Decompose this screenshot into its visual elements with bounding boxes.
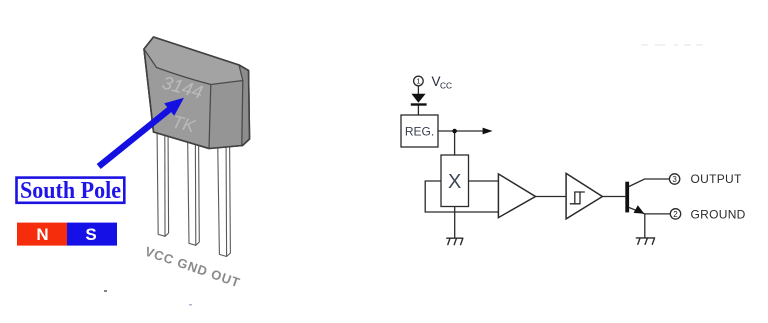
svg-text:South Pole: South Pole <box>20 178 121 204</box>
package silhouette redraw (outline on top) <box>144 37 250 149</box>
wire diode to REG <box>417 106 419 116</box>
transistor Q1 base bar <box>625 182 629 213</box>
regulator box REG <box>401 115 438 147</box>
lead GND (leg 2) <box>188 128 200 245</box>
wire hall left bracket <box>425 181 498 212</box>
hall element box <box>441 155 469 207</box>
transistor emitter wire <box>629 208 645 214</box>
svg-text:1: 1 <box>416 77 420 86</box>
wire pin1 to diode <box>417 86 419 94</box>
ground symbol 1 (hall element) <box>447 238 463 244</box>
wire amp to schmitt <box>536 196 567 198</box>
wire hall to ground <box>454 207 456 239</box>
pin 3 circle <box>669 174 679 184</box>
package facet edges <box>144 49 243 149</box>
svg-text:2: 2 <box>673 210 678 219</box>
transistor Q1 emitter arrowhead <box>634 205 645 213</box>
magnet north half <box>17 223 67 246</box>
pin 2 circle <box>670 209 680 219</box>
svg-text:3: 3 <box>672 175 677 184</box>
South Pole label box <box>17 178 125 203</box>
wire REG output <box>438 130 484 132</box>
diode D1 <box>411 94 427 106</box>
wire hall right to amp <box>469 180 499 182</box>
faint speck bottom left <box>104 290 107 292</box>
schmitt trigger U2 <box>566 173 602 219</box>
magnet south half <box>67 223 117 246</box>
faint scan artifacts top right <box>641 44 703 46</box>
package right bevel facet <box>209 81 243 149</box>
lead OUT (leg 3) <box>218 130 231 257</box>
svg-text:OUTPUT: OUTPUT <box>691 172 742 186</box>
hysteresis symbol <box>570 192 585 204</box>
pin 1 circle <box>414 76 424 86</box>
faint speck lower middle <box>189 304 192 306</box>
svg-text:S: S <box>85 225 96 244</box>
package body TO-92 silhouette <box>144 37 250 149</box>
svg-text:GROUND: GROUND <box>691 207 746 221</box>
junction node dot <box>452 129 457 134</box>
transistor collector wire <box>629 179 669 187</box>
package right side sliver <box>239 65 250 146</box>
wire emitter to pin2 <box>645 213 671 215</box>
wire emitter to ground <box>644 214 646 238</box>
svg-text:REG.: REG. <box>405 124 434 138</box>
svg-text:X: X <box>448 171 461 193</box>
wire schmitt to transistor base <box>602 196 625 198</box>
svg-text:CC: CC <box>440 81 452 91</box>
wire node to hall element <box>454 131 456 155</box>
svg-text:N: N <box>36 225 48 244</box>
package top face <box>144 37 243 85</box>
lead VCC (leg 1) <box>157 125 169 236</box>
south-pole arrow <box>97 98 184 169</box>
ground symbol 2 (emitter) <box>636 238 654 244</box>
op-amp A1 <box>498 174 535 218</box>
REG output arrowhead <box>483 128 493 135</box>
